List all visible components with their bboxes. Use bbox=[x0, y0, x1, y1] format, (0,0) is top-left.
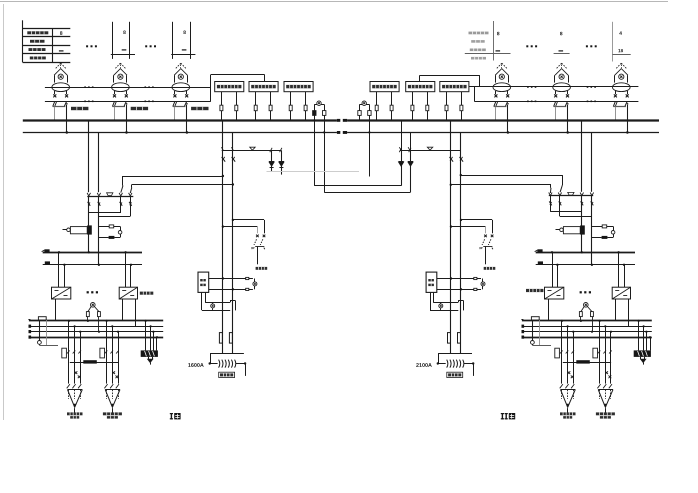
wire line A right bbox=[469, 86, 639, 88]
switch x-marks group 1 II bbox=[568, 371, 571, 374]
fuse left of PT2 bbox=[358, 111, 361, 116]
incoming transformer bay T2-1 bbox=[493, 63, 511, 134]
label cable feeder 2 I bbox=[103, 412, 122, 415]
wire bracket to box B2 bbox=[211, 74, 265, 76]
metering fuse tap I bbox=[99, 226, 109, 228]
disconnect contacts on line II bbox=[549, 193, 552, 196]
surge arrester F4 bbox=[410, 150, 412, 192]
wire leg of B6 bbox=[446, 92, 448, 121]
ellipsis dots table right 2 bbox=[586, 45, 588, 47]
wire bbox=[0, 1, 668, 3]
wire line B left bbox=[45, 101, 211, 103]
wire bracket to box B5 bbox=[479, 75, 481, 87]
fuse on leg of B1 bbox=[235, 105, 238, 111]
rectifier module 2 I bbox=[125, 252, 127, 287]
feeder riser L-out 2 bbox=[98, 132, 100, 192]
wire loop I inner bbox=[130, 196, 132, 216]
cabinet box B6 bbox=[440, 82, 469, 92]
fuse on leg of B4 bbox=[375, 105, 378, 111]
load table column bay6 bbox=[612, 22, 614, 62]
fuse on leg of B2 bbox=[254, 105, 257, 111]
battery panel box I bbox=[145, 321, 147, 351]
node R-in 2 bbox=[450, 184, 452, 186]
feeder riser L-in 2 bbox=[232, 132, 234, 353]
wire leg of B6 bbox=[461, 92, 463, 121]
label cable feeder 1 I bbox=[67, 412, 83, 415]
voltage transformer PT1 bbox=[314, 104, 324, 106]
incoming transformer bay T2-3 bbox=[613, 63, 631, 134]
wire leg of B4 bbox=[376, 92, 378, 121]
incoming transformer bay T1-3 bbox=[172, 63, 209, 134]
breaker bracket 1 I bbox=[62, 348, 67, 358]
shunt resistor II bbox=[531, 317, 539, 320]
contact mark R1 bbox=[399, 147, 401, 151]
dc bus line 3 II bbox=[522, 331, 652, 333]
label black box II bbox=[576, 360, 590, 363]
dc feeder line I bbox=[70, 362, 118, 364]
wire leg of B5 bbox=[427, 92, 429, 121]
switch on L-in 1 bbox=[222, 157, 226, 162]
label reactor II bbox=[447, 372, 463, 377]
label reactor I bbox=[219, 372, 235, 377]
wire bbox=[3, 4, 5, 420]
dc feeder line II bbox=[563, 362, 611, 364]
contact mark L-in 1 bbox=[221, 147, 223, 151]
cabinet box B3 bbox=[284, 82, 313, 92]
control tap lines I bbox=[209, 278, 253, 280]
ellipsis dots rectifiers I bbox=[87, 291, 89, 293]
ellipsis dots table right 1 bbox=[526, 45, 528, 47]
fuse on leg of B1 bbox=[220, 105, 223, 111]
switch x-marks group 1 I bbox=[75, 371, 78, 374]
reactor coil II bbox=[438, 353, 472, 355]
ellipsis dots line A right 2 bbox=[587, 86, 589, 88]
dc bus line 2 I bbox=[29, 326, 163, 328]
wire bbox=[324, 115, 326, 120]
wire riser right A-B bbox=[474, 87, 476, 101]
wire line A left bbox=[45, 87, 211, 89]
surge arrester F1 bbox=[271, 150, 273, 171]
cabinet box B1 bbox=[215, 82, 244, 92]
breaker bracket 2 I bbox=[100, 348, 105, 358]
label section II bbox=[501, 413, 504, 414]
control box I bbox=[198, 272, 209, 292]
dc bus line 1 II bbox=[522, 320, 652, 322]
fuse right of PT2 bbox=[368, 111, 371, 116]
wire leg of B4 bbox=[391, 92, 393, 121]
label branch feeder II bbox=[484, 267, 496, 270]
wire PT1 link 1 to arrester bbox=[314, 185, 401, 187]
label cable feeder 2 II bbox=[596, 412, 615, 415]
bus I section (thick) bbox=[23, 119, 337, 121]
earth triangle on tie right bbox=[427, 147, 433, 150]
ac sub-bus 1 I bbox=[43, 252, 142, 254]
control tap lines II bbox=[437, 278, 481, 280]
incoming transformer bay T1-2 bbox=[112, 63, 148, 134]
label black box I bbox=[83, 360, 97, 363]
cable feeder group 2 II bbox=[599, 321, 601, 384]
load table T2 bbox=[493, 21, 495, 61]
switch on L-in 2 bbox=[232, 157, 236, 162]
fuse on leg of B5 bbox=[426, 105, 429, 111]
ellipsis dots line B right 1 bbox=[527, 101, 529, 103]
fuse on leg of B3 bbox=[289, 105, 292, 111]
fuse pair II bbox=[448, 333, 451, 344]
cable feeder group 2 I bbox=[106, 321, 108, 384]
wire leg of B2 bbox=[270, 92, 272, 121]
wire link R-in1 to rectifier II bbox=[451, 184, 551, 186]
tie line right bbox=[400, 150, 461, 152]
bus tie blob right on bus1 bbox=[343, 119, 347, 122]
node II bbox=[581, 251, 583, 253]
wire link R-in2 to rectifier II bbox=[461, 175, 563, 177]
feeder riser R-in 2 bbox=[460, 132, 462, 353]
earth triangle on tie left bbox=[250, 147, 256, 150]
ellipsis dots line A right 1 bbox=[527, 86, 529, 88]
dc bus line 1 I bbox=[29, 320, 163, 322]
label branch feeder I bbox=[256, 267, 268, 270]
wire rectifier I top line bbox=[87, 196, 133, 198]
control box II bbox=[426, 272, 437, 292]
bus 2 I section bbox=[23, 132, 337, 134]
dc bus line 2 II bbox=[522, 326, 652, 328]
wire loop I outer bbox=[120, 196, 122, 213]
node R-in 1 bbox=[460, 174, 462, 176]
bus tie blob left on bus2 bbox=[337, 131, 340, 134]
reactor coil I bbox=[210, 353, 244, 355]
incoming transformer bay T2-2 bbox=[553, 63, 571, 134]
label cable feeder 1 II bbox=[560, 412, 576, 415]
current transformer drum I bbox=[63, 229, 67, 231]
earth triangle line II bbox=[568, 192, 574, 195]
wire PT1 riser 1 bbox=[314, 120, 316, 186]
voltage transformer PT2 bbox=[360, 104, 370, 106]
ac sub-bus 1 II bbox=[536, 252, 635, 254]
battery panel box II bbox=[638, 321, 640, 351]
fuse on leg of B6 bbox=[460, 105, 463, 111]
ellipsis dots table left 2 bbox=[145, 45, 147, 47]
ellipsis dots rectifiers II bbox=[580, 291, 582, 293]
dc bus line 4 II bbox=[522, 337, 652, 339]
wire bbox=[369, 115, 371, 120]
rectifier module 1 I bbox=[58, 252, 60, 287]
switch on R-in 1 bbox=[450, 157, 454, 162]
feeder riser L-in 1 bbox=[222, 120, 224, 353]
disconnect contacts on line I bbox=[87, 193, 90, 196]
feeder riser L-out 1 bbox=[88, 120, 90, 192]
cable feeder group 1 II bbox=[561, 321, 563, 384]
cable plug pentagon 1 II bbox=[560, 384, 563, 388]
fuse pair I bbox=[219, 333, 222, 344]
fuse on leg of B6 bbox=[445, 105, 448, 111]
branch feeder upper I bbox=[232, 219, 234, 221]
current transformer drum II bbox=[556, 229, 560, 231]
ellipsis dots line B left 1 bbox=[84, 101, 86, 103]
cable feeder group 1 I bbox=[68, 321, 70, 384]
dc voltage monitor PT I bbox=[91, 303, 96, 308]
dc bus line 4 I bbox=[29, 337, 163, 339]
ellipsis dots line A left 1 bbox=[84, 86, 86, 88]
wire link L-in2 to rectifier I bbox=[132, 184, 233, 186]
fuse on leg of B3 bbox=[304, 105, 307, 111]
contact mark R2 bbox=[408, 147, 410, 151]
rectifier module 2 II bbox=[618, 252, 620, 287]
cabinet box B5 bbox=[406, 82, 435, 92]
bus 2 II section bbox=[347, 132, 659, 134]
bus II section (thick) bbox=[347, 119, 659, 121]
branch feeder lower II bbox=[450, 225, 452, 227]
fuse on leg of B2 bbox=[269, 105, 272, 111]
wire leg of B2 bbox=[255, 92, 257, 121]
ellipsis dots line B right 2 bbox=[587, 101, 589, 103]
wire PT1 link 2 to arrester bbox=[324, 192, 410, 194]
incoming transformer bay T1-1 bbox=[52, 63, 89, 134]
earth loop II bbox=[430, 292, 432, 310]
bus tie blob right on bus2 bbox=[343, 131, 347, 134]
load table column bay3 bbox=[172, 22, 174, 59]
cabinet box B4 bbox=[370, 82, 399, 92]
wire leg of B1 bbox=[236, 92, 238, 121]
wire tie riser R1 bbox=[401, 120, 403, 150]
wire leg of B1 bbox=[221, 92, 223, 121]
wire leg of B3 bbox=[290, 92, 292, 121]
wire rectifier II top line bbox=[549, 195, 593, 197]
fuse left of PT1 bbox=[313, 111, 316, 116]
cable plug pentagon 1 I bbox=[67, 384, 70, 388]
wire riser left boxes bbox=[210, 75, 212, 102]
wire loop II outer bbox=[550, 196, 552, 212]
wire PT2 riser (stub) bbox=[369, 120, 371, 176]
contact mark L-in 2 bbox=[231, 147, 233, 151]
label rectifier cabinet I bbox=[140, 292, 154, 295]
metering fuse tap II bbox=[592, 226, 602, 228]
feeder riser R-out 2 bbox=[591, 132, 593, 191]
cable plug pentagon 2 I bbox=[104, 384, 107, 388]
load table T1 bbox=[23, 28, 71, 30]
ellipsis dots line B left 2 bbox=[145, 101, 147, 103]
feeder riser R-in 1 bbox=[450, 120, 452, 353]
label amp II bbox=[416, 363, 432, 367]
load table column bay2 bbox=[112, 22, 114, 59]
ellipsis dots line A left 2 bbox=[145, 86, 147, 88]
switch blades below line I bbox=[88, 202, 91, 206]
wire loop II inner bbox=[559, 196, 561, 216]
wire leg of B5 bbox=[412, 92, 414, 121]
ac sub-bus 2 I bbox=[43, 264, 142, 266]
node L-in 2 bbox=[232, 183, 234, 185]
wire line B right bbox=[474, 101, 638, 103]
dc voltage monitor PT II bbox=[584, 303, 589, 308]
wire PT1 riser 2 bbox=[324, 120, 326, 192]
dc bus line 3 I bbox=[29, 331, 163, 333]
wire leg of B3 bbox=[305, 92, 307, 121]
surge arrester F2 bbox=[281, 150, 283, 174]
earth loop I bbox=[201, 292, 203, 310]
cabinet box B2 bbox=[249, 82, 278, 92]
shunt resistor I bbox=[38, 317, 46, 320]
fuse right of PT1 bbox=[323, 111, 326, 116]
switch x-marks group 2 I bbox=[112, 371, 115, 374]
load table column bay5 bbox=[554, 53, 570, 55]
ellipsis dots table left 1 bbox=[86, 45, 88, 47]
wire faint artifact bbox=[267, 171, 360, 173]
breaker bracket 1 II bbox=[555, 348, 560, 358]
fuse on leg of B4 bbox=[390, 105, 393, 111]
switch blades below line II bbox=[549, 201, 552, 205]
fuse on leg of B5 bbox=[411, 105, 414, 111]
ac sub-bus 2 II bbox=[536, 264, 635, 266]
wire bbox=[359, 115, 361, 120]
breaker bracket 2 II bbox=[593, 348, 598, 358]
feeder riser R-out 1 bbox=[581, 120, 583, 192]
rectifier module 1 II bbox=[552, 252, 554, 287]
node I bbox=[88, 251, 90, 253]
surge arrester F3 bbox=[401, 150, 403, 185]
bus tie blob left on bus1 bbox=[337, 119, 340, 122]
branch feeder upper II bbox=[460, 219, 462, 221]
tie line left bbox=[222, 150, 282, 152]
label section I bbox=[170, 413, 173, 414]
wire tie riser R2 bbox=[410, 132, 412, 150]
label rectifier cabinet II bbox=[526, 289, 543, 292]
cable plug pentagon 2 II bbox=[597, 384, 600, 388]
label amp I bbox=[188, 363, 203, 367]
branch feeder lower I bbox=[222, 225, 224, 227]
earth triangle line I bbox=[107, 193, 113, 196]
node L-in 1 bbox=[222, 175, 224, 177]
wire link L-in1 to rectifier I bbox=[123, 176, 223, 178]
switch on R-in 2 bbox=[460, 157, 464, 162]
wire bbox=[314, 115, 316, 120]
switch x-marks group 2 II bbox=[605, 371, 608, 374]
